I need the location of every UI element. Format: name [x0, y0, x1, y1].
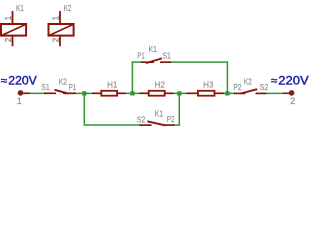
- svg-text:220V: 220V: [278, 75, 309, 87]
- pin tip dot right: [173, 124, 175, 126]
- svg-text:≈: ≈: [1, 76, 7, 88]
- switch right lead: [160, 61, 170, 63]
- switch S2/P2 (contact of coil K1) bottom branch: [137, 110, 175, 126]
- wire switch S2 to node 2: [266, 92, 283, 94]
- switch right lead: [256, 92, 266, 94]
- K2 bottom pin wire: [59, 36, 61, 46]
- bottom branch left vertical wire: [83, 93, 85, 125]
- relay coil K2: [49, 4, 74, 46]
- switch left lead: [45, 92, 56, 94]
- junction H2-H3 bottom branch end: [177, 91, 181, 95]
- supply symbol left 220V: [1, 75, 37, 106]
- H2 right pin tip dot: [172, 93, 174, 95]
- switch P2/S2 (contact of coil K2): [233, 77, 268, 94]
- junction H1-H2 top branch start: [130, 91, 134, 95]
- H3 body: [198, 91, 215, 96]
- switch right lead: [63, 92, 75, 94]
- K1 coil diagonal: [2, 24, 26, 35]
- svg-text:2: 2: [290, 96, 295, 106]
- pin tip dot right: [170, 61, 172, 63]
- switch blade: [147, 121, 165, 125]
- H1 right pin tip dot: [125, 93, 127, 95]
- switch left lead: [235, 92, 245, 94]
- svg-text:1: 1: [52, 15, 61, 20]
- node 1 pin stub: [23, 93, 29, 95]
- K2 top pin wire: [59, 11, 61, 24]
- svg-text:S1: S1: [41, 83, 50, 92]
- H1 left pin: [94, 92, 102, 94]
- svg-text:K2: K2: [59, 78, 68, 87]
- wire node1 to switch S1: [30, 92, 45, 94]
- svg-text:P1: P1: [69, 83, 77, 92]
- resistor H1: [92, 81, 126, 96]
- top branch left vertical wire: [131, 61, 133, 93]
- svg-text:K1: K1: [16, 4, 24, 13]
- svg-text:H1: H1: [107, 81, 118, 90]
- svg-text:H2: H2: [155, 81, 166, 90]
- K1 coil body: [1, 24, 26, 36]
- svg-text:1: 1: [17, 96, 22, 106]
- node 2 pin tip: [283, 92, 284, 94]
- H1 right pin: [118, 92, 125, 94]
- wire H2 to H3: [173, 92, 187, 94]
- junction at bottom branch start: [82, 91, 86, 95]
- K2 coil body: [49, 24, 74, 36]
- svg-text:P1: P1: [137, 51, 145, 60]
- switch blade: [55, 90, 69, 94]
- pin tip dot right: [265, 93, 267, 95]
- bottom branch left horizontal wire: [84, 124, 141, 126]
- svg-text:≈: ≈: [271, 76, 277, 88]
- H3 left pin: [188, 92, 198, 94]
- junction H3 top branch end: [225, 91, 229, 95]
- svg-text:P2: P2: [167, 115, 175, 124]
- H2 pin tip dot: [140, 93, 142, 95]
- switch left lead: [142, 61, 154, 63]
- H1 body: [101, 91, 117, 96]
- wire H1 to H2: [126, 92, 140, 94]
- pin tip dot left: [141, 61, 143, 63]
- svg-text:P2: P2: [233, 83, 242, 92]
- H2 right pin: [165, 92, 173, 94]
- switch blade: [146, 58, 162, 63]
- relay coil K1: [1, 4, 26, 46]
- switch S1/P1 (contact of coil K2): [41, 78, 76, 95]
- switch left lead: [141, 124, 152, 126]
- svg-text:K2: K2: [64, 4, 72, 13]
- top branch right vertical wire: [226, 61, 228, 93]
- wire switch S1 to H1: [76, 92, 93, 94]
- pin tip dot left: [234, 93, 236, 95]
- node 1 pin tip: [28, 92, 29, 94]
- K2 coil diagonal: [49, 24, 73, 35]
- H3 pin tip dot: [187, 93, 189, 95]
- H3 right pin: [215, 92, 223, 94]
- pin tip dot right: [75, 93, 77, 95]
- H2 left pin: [141, 92, 149, 94]
- resistor H3: [187, 81, 225, 96]
- svg-text:S2: S2: [260, 83, 269, 92]
- K1 top pin wire: [12, 11, 14, 24]
- svg-text:S2: S2: [137, 115, 146, 124]
- top branch left horizontal wire: [132, 61, 142, 63]
- svg-text:H3: H3: [203, 81, 214, 90]
- bottom branch right vertical wire: [178, 93, 180, 125]
- H1 pin tip dot: [92, 93, 94, 95]
- svg-text:K2: K2: [244, 77, 253, 86]
- svg-text:220V: 220V: [8, 75, 37, 87]
- switch blade: [241, 89, 258, 93]
- pin tip dot left: [44, 93, 46, 95]
- top branch right horizontal wire: [171, 61, 228, 63]
- switch right lead: [164, 124, 174, 126]
- svg-text:1: 1: [4, 15, 13, 20]
- wire H3 to switch P2: [224, 92, 235, 94]
- svg-text:K1: K1: [149, 45, 158, 54]
- supply symbol right 220V: [271, 75, 309, 106]
- bottom branch right horizontal wire: [175, 124, 180, 126]
- pin tip dot left: [140, 124, 142, 126]
- svg-text:2: 2: [4, 37, 13, 42]
- K1 bottom pin wire: [12, 36, 14, 46]
- node 1 dot: [18, 90, 24, 96]
- H3 right pin tip dot: [223, 93, 225, 95]
- switch P1/S1 (contact of coil K1) top branch: [137, 45, 171, 63]
- node 2 dot: [289, 90, 295, 96]
- svg-text:2: 2: [51, 37, 60, 42]
- resistor H2: [140, 81, 174, 96]
- H2 body: [149, 91, 165, 96]
- node 2 pin stub: [284, 93, 289, 95]
- svg-text:K1: K1: [155, 110, 164, 119]
- svg-text:S1: S1: [162, 51, 171, 60]
